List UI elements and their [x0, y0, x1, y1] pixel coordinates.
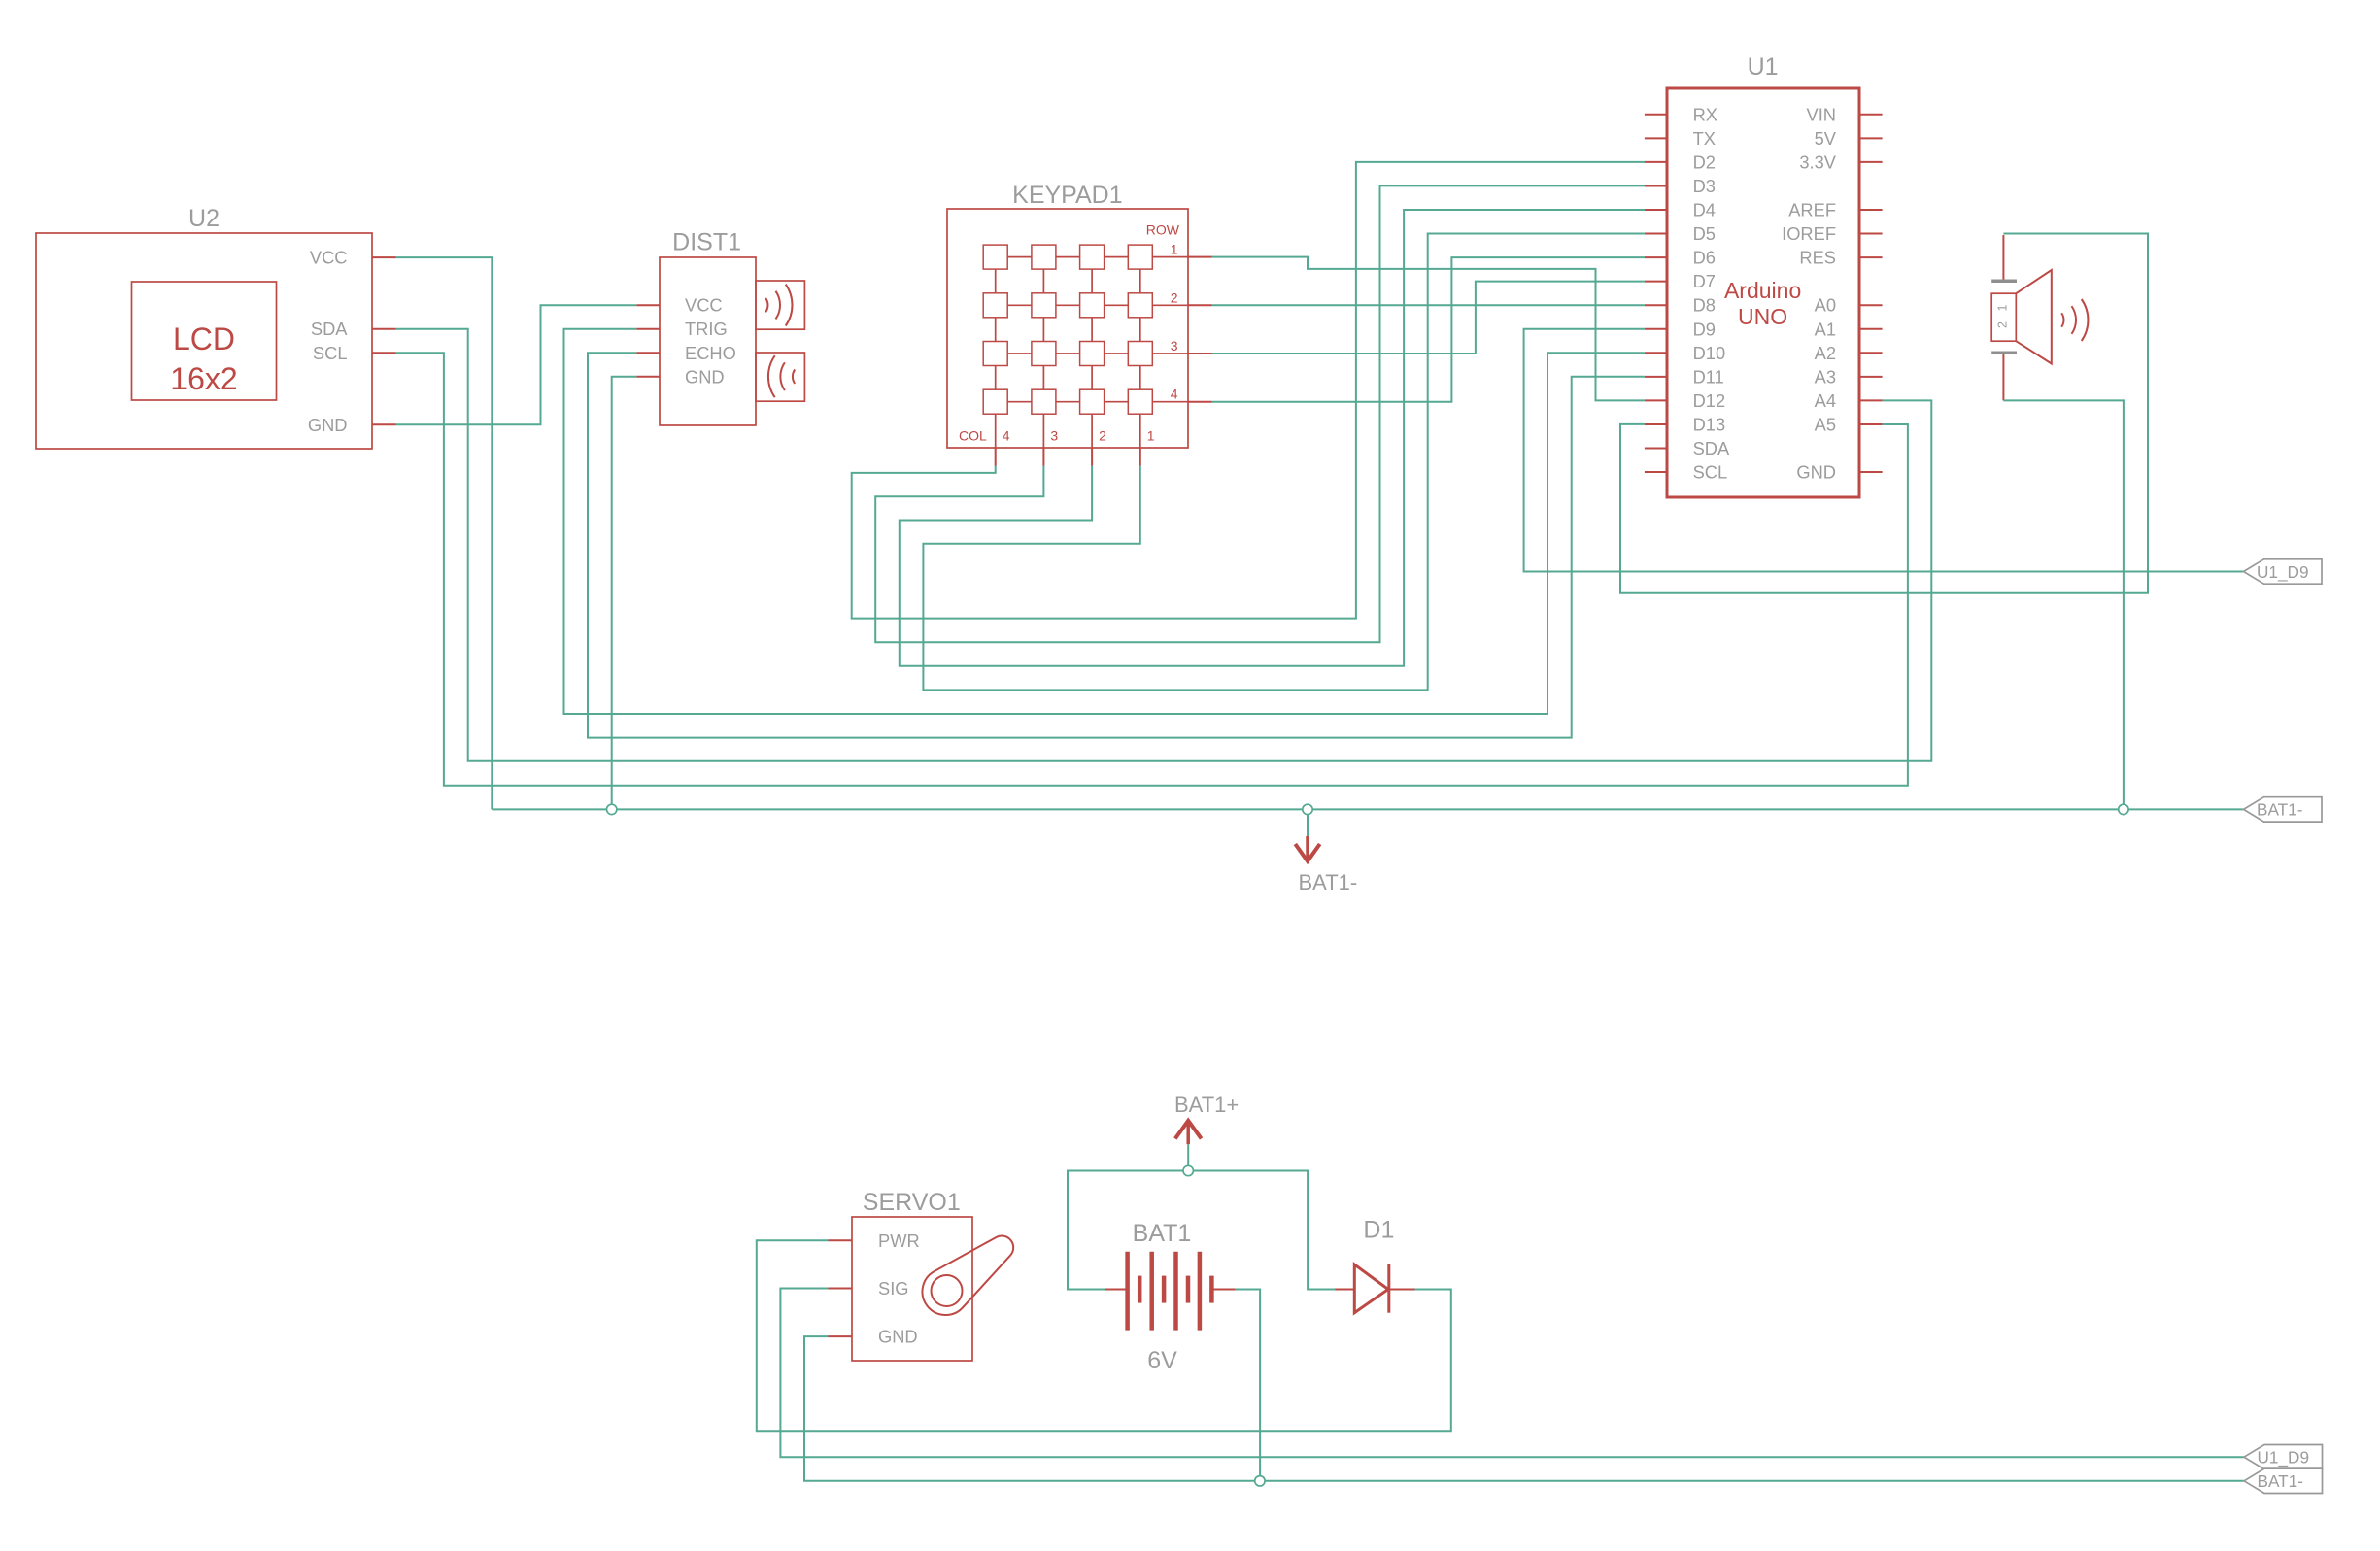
wire LCD SDA to U1 A4 — [396, 329, 1932, 761]
keypad col 4 interconnect 1 — [995, 269, 997, 293]
U1 right pin stub IOREF — [1859, 233, 1883, 235]
svg-text:KEYPAD1: KEYPAD1 — [1012, 182, 1122, 209]
svg-text:U1_D9: U1_D9 — [2258, 1448, 2310, 1467]
keypad key switch r2c4 — [1128, 293, 1152, 318]
diode anode stub — [1335, 1289, 1354, 1291]
svg-text:5V: 5V — [1815, 128, 1837, 149]
keypad row 4 interconnect 3 — [1105, 401, 1129, 403]
svg-text:U1: U1 — [1748, 53, 1779, 81]
svg-text:UNO: UNO — [1738, 304, 1787, 329]
keypad col 4 interconnect 2 — [995, 318, 997, 342]
svg-text:RX: RX — [1693, 104, 1717, 124]
U1 right pin stub A5 — [1859, 423, 1883, 425]
U1 left pin stub D12 — [1645, 399, 1667, 401]
U1 left pin stub TX — [1645, 137, 1667, 139]
speaker horn — [2016, 270, 2052, 364]
speaker top terminal plate — [1991, 280, 2017, 284]
keypad col 4 interconnect 3 — [995, 366, 997, 390]
speaker bottom terminal plate — [1991, 351, 2017, 354]
wire KEYPAD ROW1 to U1 D12 — [1212, 257, 1645, 401]
keypad key switch r4c1 — [983, 389, 1007, 414]
svg-text:A2: A2 — [1815, 343, 1836, 363]
wire LCD SCL to U1 A5 — [396, 353, 1908, 786]
junction battery negative on BAT1- bottom — [1255, 1476, 1265, 1486]
keypad key switch r4c2 — [1032, 389, 1056, 414]
keypad key switch r4c4 — [1128, 389, 1152, 414]
svg-text:LCD: LCD — [173, 321, 235, 356]
U1 left pin stub D6 — [1645, 256, 1667, 258]
svg-text:GND: GND — [308, 415, 348, 435]
keypad col 1 interconnect 1 — [1139, 269, 1141, 293]
keypad row 2 interconnect 1 — [1007, 304, 1032, 306]
keypad col 2 interconnect 1 — [1091, 269, 1093, 293]
svg-text:BAT1-: BAT1- — [2257, 800, 2302, 820]
wire KEYPAD COL1 to U1 D5 — [923, 234, 1645, 691]
U1 right pin stub A3 — [1859, 376, 1883, 378]
keypad ROW4 pin stub — [1188, 401, 1212, 403]
svg-text:D13: D13 — [1693, 414, 1726, 434]
svg-text:IOREF: IOREF — [1782, 223, 1836, 244]
wire KEYPAD ROW2 to U1 D8 — [1212, 304, 1645, 306]
speaker top lead — [2002, 235, 2004, 280]
keypad ROW3 pin stub — [1188, 353, 1212, 354]
keypad row 3 interconnect 1 — [1007, 353, 1032, 354]
DIST1 receiver sound waves — [768, 355, 775, 397]
svg-text:2: 2 — [1171, 289, 1178, 305]
svg-text:D3: D3 — [1693, 176, 1716, 196]
keypad row 3 interconnect 2 — [1056, 353, 1080, 354]
svg-text:BAT1-: BAT1- — [1299, 870, 1358, 894]
net flag BAT1- right — [2244, 797, 2323, 822]
wire KEYPAD COL3 to U1 D3 — [875, 185, 1645, 642]
svg-text:DIST1: DIST1 — [672, 229, 741, 256]
svg-text:A5: A5 — [1815, 414, 1836, 434]
svg-text:D5: D5 — [1693, 223, 1716, 244]
SERVO1 pin stub GND — [829, 1335, 853, 1337]
U1 right pin stub 5V — [1859, 137, 1883, 139]
svg-text:VCC: VCC — [685, 295, 723, 316]
U2 pin stub SDA — [372, 328, 396, 330]
svg-text:D11: D11 — [1693, 366, 1724, 387]
U1 left pin stub D7 — [1645, 281, 1667, 283]
svg-text:COL: COL — [959, 428, 987, 444]
keypad key switch r2c2 — [1032, 293, 1056, 318]
wire U1 D13 to speaker top — [1620, 234, 2148, 593]
svg-text:D2: D2 — [1693, 152, 1716, 172]
diode cathode bar — [1387, 1264, 1390, 1313]
keypad key switch r4c3 — [1080, 389, 1105, 414]
net flag BAT1- bottom — [2244, 1468, 2323, 1493]
DIST1 pin stub ECHO — [636, 352, 660, 354]
svg-text:2: 2 — [1996, 321, 2010, 328]
battery long plate 4 — [1198, 1252, 1203, 1331]
U1 left pin stub D8 — [1645, 304, 1667, 306]
svg-text:Arduino: Arduino — [1724, 278, 1801, 303]
svg-text:D1: D1 — [1363, 1217, 1394, 1244]
junction BAT1- arrow — [1303, 804, 1312, 814]
keypad row 2 lead to edge — [1152, 304, 1188, 306]
U1 right pin stub A0 — [1859, 304, 1883, 306]
junction DIST1 GND on BAT1- — [607, 804, 617, 814]
keypad COL3 pin stub — [1042, 448, 1044, 466]
battery short plate 4 — [1209, 1276, 1214, 1303]
speaker bottom lead — [2002, 354, 2004, 400]
U1 right pin stub RES — [1859, 256, 1883, 258]
keypad key switch r2c3 — [1080, 293, 1105, 318]
DIST1 transmitter transducer box — [756, 281, 804, 329]
svg-text:AREF: AREF — [1788, 200, 1836, 220]
speaker sound waves — [2061, 313, 2063, 326]
wire speaker bottom to BAT1- bus — [2003, 400, 2124, 809]
DIST1 transmitter sound waves — [765, 298, 767, 312]
keypad key switch r1c3 — [1080, 245, 1105, 269]
SERVO1 pin stub SIG — [829, 1288, 853, 1290]
svg-text:16x2: 16x2 — [170, 361, 237, 396]
servo horn icon — [922, 1236, 1013, 1315]
ultrasonic distance sensor DIST1 — [660, 257, 756, 425]
keypad key switch r1c1 — [983, 245, 1007, 269]
speaker body rect — [1991, 293, 2016, 341]
DIST1 pin stub GND — [636, 376, 660, 378]
keypad row 1 interconnect 1 — [1007, 256, 1032, 258]
U1 right pin stub 3.3V — [1859, 161, 1883, 163]
svg-text:A3: A3 — [1815, 366, 1836, 387]
wire SERVO1 GND to net flag BAT1- bottom — [804, 1336, 2244, 1481]
junction BAT1+ arrow — [1183, 1165, 1193, 1175]
svg-text:SERVO1: SERVO1 — [863, 1189, 961, 1216]
svg-text:U1_D9: U1_D9 — [2257, 562, 2309, 582]
wire U1 D9 to net flag U1_D9 — [1524, 329, 2244, 572]
svg-text:SIG: SIG — [878, 1278, 909, 1298]
U1 left pin stub D11 — [1645, 376, 1667, 378]
svg-text:D4: D4 — [1693, 200, 1716, 220]
svg-text:4: 4 — [1171, 387, 1178, 402]
keypad col 2 interconnect 3 — [1091, 366, 1093, 390]
U1 left pin stub D5 — [1645, 233, 1667, 235]
SERVO1 pin stub PWR — [829, 1239, 853, 1241]
svg-text:1: 1 — [1171, 242, 1178, 257]
wire battery positive loop to diode anode — [1068, 1171, 1335, 1290]
svg-text:6V: 6V — [1147, 1347, 1177, 1374]
wire BAT1- bus horizontal — [492, 808, 2243, 810]
wire DIST1 TRIG to U1 D10 — [564, 329, 1645, 714]
svg-text:TX: TX — [1693, 128, 1716, 149]
keypad key switch r2c1 — [983, 293, 1007, 318]
U2 pin stub GND — [372, 423, 396, 425]
U1 right pin stub GND — [1859, 471, 1883, 473]
U1 right pin stub AREF — [1859, 209, 1883, 211]
svg-text:GND: GND — [1796, 462, 1836, 483]
U1 left pin stub D9 — [1645, 328, 1667, 330]
wire KEYPAD ROW3 to U1 D7 — [1212, 282, 1645, 354]
net flag U1_D9 right — [2244, 559, 2323, 584]
svg-text:D9: D9 — [1693, 319, 1716, 339]
LCD module U2 — [36, 233, 372, 449]
keypad row 1 interconnect 3 — [1105, 256, 1129, 258]
net flag U1_D9 bottom — [2244, 1445, 2323, 1469]
svg-text:D7: D7 — [1693, 271, 1716, 291]
keypad row 1 interconnect 2 — [1056, 256, 1080, 258]
keypad col 3 interconnect 2 — [1042, 318, 1044, 342]
svg-text:GND: GND — [685, 366, 725, 387]
keypad row 4 lead to edge — [1152, 401, 1188, 403]
battery positive stub — [1105, 1289, 1128, 1291]
U1 left pin stub D4 — [1645, 209, 1667, 211]
svg-text:VIN: VIN — [1807, 104, 1836, 124]
svg-text:A0: A0 — [1815, 295, 1836, 316]
keypad KEYPAD1 — [947, 209, 1188, 448]
U1 left pin stub SCL — [1645, 471, 1667, 473]
BAT1+ arrow teal stem — [1187, 1144, 1189, 1165]
wire battery negative to BAT1- bottom — [1236, 1290, 1261, 1481]
battery long plate 1 — [1125, 1252, 1130, 1331]
battery short plate 1 — [1138, 1276, 1142, 1303]
U1 right pin stub A4 — [1859, 399, 1883, 401]
svg-text:BAT1+: BAT1+ — [1174, 1093, 1239, 1117]
U1 left pin stub RX — [1645, 114, 1667, 116]
BAT1+ arrow red stem — [1186, 1123, 1190, 1144]
svg-text:RES: RES — [1799, 248, 1836, 268]
BAT1+ arrowhead — [1175, 1121, 1202, 1139]
keypad COL2 pin stub — [1091, 448, 1093, 466]
svg-text:3: 3 — [1050, 428, 1058, 444]
keypad row 2 interconnect 3 — [1105, 304, 1129, 306]
keypad col 1 interconnect 3 — [1139, 366, 1141, 390]
keypad COL4 pin stub — [995, 448, 997, 466]
DIST1 receiver transducer box — [756, 353, 804, 401]
U1 left pin stub D3 — [1645, 185, 1667, 186]
svg-text:D10: D10 — [1693, 343, 1726, 363]
keypad key switch r3c4 — [1128, 342, 1152, 366]
keypad row 3 interconnect 3 — [1105, 353, 1129, 354]
keypad col 3 interconnect 1 — [1042, 269, 1044, 293]
svg-text:3.3V: 3.3V — [1799, 152, 1836, 172]
U2 pin stub VCC — [372, 256, 396, 258]
svg-text:ROW: ROW — [1146, 222, 1180, 238]
svg-text:2: 2 — [1099, 428, 1106, 444]
junction speaker on BAT1- — [2119, 804, 2128, 814]
keypad key switch r1c4 — [1128, 245, 1152, 269]
svg-text:ECHO: ECHO — [685, 343, 736, 363]
U1 right pin stub A1 — [1859, 328, 1883, 330]
keypad key switch r3c3 — [1080, 342, 1105, 366]
battery short plate 2 — [1162, 1276, 1167, 1303]
svg-text:D6: D6 — [1693, 248, 1716, 268]
keypad row 4 interconnect 2 — [1056, 401, 1080, 403]
DIST1 pin stub VCC — [636, 304, 660, 306]
svg-text:VCC: VCC — [310, 248, 348, 268]
keypad key switch r1c2 — [1032, 245, 1056, 269]
svg-text:A4: A4 — [1815, 390, 1836, 411]
diode cathode stub — [1389, 1289, 1415, 1291]
svg-text:BAT1: BAT1 — [1133, 1220, 1192, 1247]
keypad col 2 interconnect 2 — [1091, 318, 1093, 342]
svg-text:4: 4 — [1003, 428, 1010, 444]
wire DIST1 ECHO to U1 D11 — [588, 353, 1645, 737]
U1 right pin stub VIN — [1859, 114, 1883, 116]
keypad col 3 interconnect 3 — [1042, 366, 1044, 390]
svg-text:PWR: PWR — [878, 1231, 920, 1251]
servo motor SERVO1 — [852, 1217, 972, 1361]
BAT1- arrow red stem — [1306, 836, 1309, 859]
svg-text:A1: A1 — [1815, 319, 1836, 339]
BAT1- arrowhead — [1295, 844, 1319, 861]
battery long plate 2 — [1149, 1252, 1154, 1331]
keypad col 2 lead to bottom edge — [1091, 414, 1093, 448]
wire KEYPAD COL2 to U1 D4 — [900, 210, 1645, 666]
battery long plate 3 — [1173, 1252, 1178, 1331]
keypad row 1 lead to edge — [1152, 256, 1188, 258]
wire SERVO1 PWR to diode cathode — [757, 1240, 1451, 1431]
keypad key switch r3c1 — [983, 342, 1007, 366]
svg-text:SDA: SDA — [311, 319, 348, 339]
wire SERVO1 SIG to net flag U1_D9 bottom — [780, 1289, 2244, 1458]
svg-text:SCL: SCL — [313, 343, 348, 363]
Arduino UNO U1 — [1667, 88, 1859, 497]
svg-text:SDA: SDA — [1693, 438, 1730, 458]
wire LCD VCC down to BAT1- bus — [396, 257, 493, 809]
wire KEYPAD ROW4 to U1 D6 — [1212, 257, 1645, 402]
keypad ROW1 pin stub — [1188, 256, 1212, 258]
svg-text:GND: GND — [878, 1327, 918, 1347]
svg-text:3: 3 — [1171, 338, 1178, 354]
svg-text:1: 1 — [1996, 304, 2010, 311]
svg-text:BAT1-: BAT1- — [2258, 1471, 2303, 1491]
DIST1 pin stub TRIG — [636, 328, 660, 330]
svg-text:SCL: SCL — [1693, 462, 1728, 483]
svg-text:1: 1 — [1147, 428, 1155, 444]
battery short plate 3 — [1186, 1276, 1191, 1303]
keypad COL1 pin stub — [1139, 448, 1141, 466]
keypad col 3 lead to bottom edge — [1042, 414, 1044, 448]
svg-text:TRIG: TRIG — [685, 319, 728, 339]
svg-text:D12: D12 — [1693, 390, 1726, 411]
keypad ROW2 pin stub — [1188, 304, 1212, 306]
keypad key switch r3c2 — [1032, 342, 1056, 366]
U1 left pin stub D2 — [1645, 161, 1667, 163]
U1 left pin stub SDA — [1645, 448, 1667, 450]
U2 pin stub SCL — [372, 352, 396, 354]
keypad col 1 interconnect 2 — [1139, 318, 1141, 342]
wire LCD GND to DIST1 VCC — [396, 305, 637, 424]
wire DIST1 GND down to BAT1- bus — [612, 377, 637, 810]
keypad row 2 interconnect 2 — [1056, 304, 1080, 306]
battery negative stub — [1211, 1289, 1235, 1291]
keypad col 4 lead to bottom edge — [995, 414, 997, 448]
LCD inner screen box — [132, 282, 277, 400]
U1 right pin stub A2 — [1859, 352, 1883, 354]
keypad row 3 lead to edge — [1152, 353, 1188, 354]
svg-text:U2: U2 — [188, 205, 220, 232]
keypad col 1 lead to bottom edge — [1139, 414, 1141, 448]
wire KEYPAD COL4 to U1 D2 — [852, 162, 1645, 619]
BAT1- arrow teal stem — [1307, 815, 1309, 836]
U1 left pin stub D13 — [1645, 423, 1667, 425]
keypad row 4 interconnect 1 — [1007, 401, 1032, 403]
U1 left pin stub D10 — [1645, 352, 1667, 354]
svg-text:D8: D8 — [1693, 295, 1716, 316]
